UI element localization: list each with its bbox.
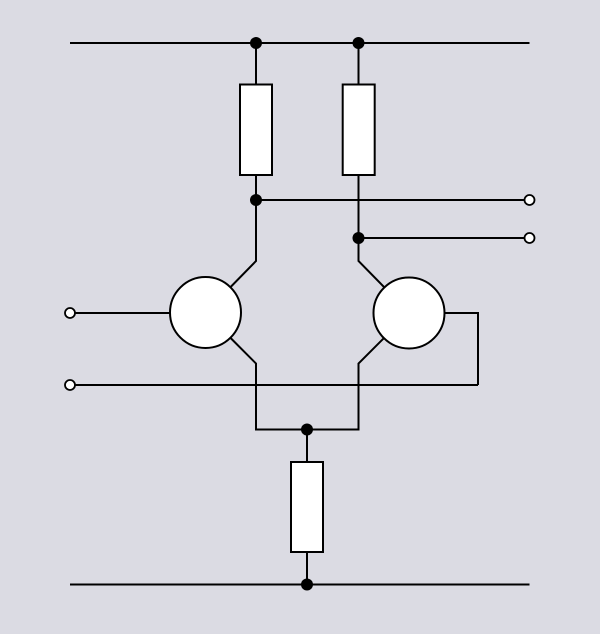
node tail junction (301, 424, 313, 436)
wire negative supply rail (bottom) (70, 584, 530, 586)
node right collector junction (353, 232, 365, 244)
wire output 1 (left collector node to right terminal) (256, 199, 524, 201)
wire R2 bottom lead to node (358, 175, 360, 238)
node left collector junction (250, 194, 262, 206)
wire left transistor emitter to tail node (231, 338, 307, 430)
resistor R1 (240, 85, 272, 176)
transistor Q2 (right, circle symbol) (374, 278, 445, 349)
resistor R3 (291, 462, 323, 552)
wire right transistor base feedback to input 2 line (445, 313, 479, 385)
wire R1 bottom lead to node (255, 175, 257, 200)
wire left collector node down to left transistor (231, 200, 256, 287)
terminal input 2 (open circle, left lower) (65, 380, 75, 390)
resistor R2 (343, 85, 375, 176)
wire R1 top lead (255, 43, 257, 85)
terminal input 1 (open circle, left upper) (65, 308, 75, 318)
wire input 2 (lower left terminal across) (76, 384, 479, 386)
node top rail / R1 junction (250, 37, 262, 49)
wire R3 to bottom rail (306, 552, 308, 585)
node top rail / R2 junction (353, 37, 365, 49)
wire right collector node down to right transistor (359, 238, 385, 287)
wire tail node to R3 (306, 430, 308, 463)
wire positive supply rail (top) (70, 42, 530, 44)
wire R2 top lead (358, 43, 360, 85)
wire output 2 (right collector node to right terminal) (359, 237, 525, 239)
transistor Q1 (left, circle symbol) (170, 277, 241, 348)
terminal output 1 (open circle, right upper) (525, 195, 535, 205)
wire input 1 (left terminal to left transistor) (76, 312, 171, 314)
wire right transistor emitter to tail node (307, 338, 384, 430)
terminal output 2 (open circle, right lower) (525, 233, 535, 243)
node bottom rail junction (301, 579, 313, 591)
